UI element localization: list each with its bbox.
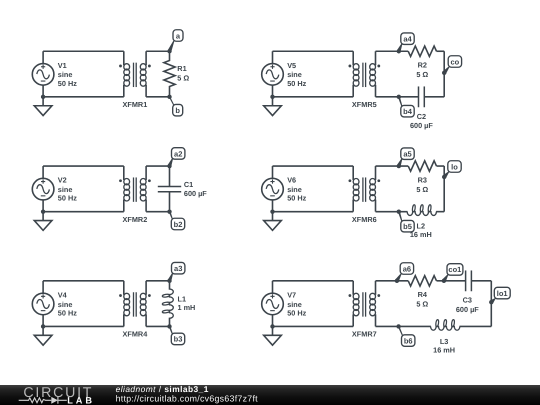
svg-text:50 Hz: 50 Hz: [287, 194, 306, 203]
voltage source V7 (sine): [262, 293, 284, 315]
svg-text:50 Hz: 50 Hz: [58, 194, 77, 203]
svg-text:600 µF: 600 µF: [456, 305, 479, 314]
transformer XFMR7: [349, 281, 381, 327]
svg-text:V5: V5: [287, 61, 296, 70]
svg-text:C1: C1: [184, 180, 193, 189]
transformer XFMR1: [119, 51, 151, 97]
capacitor C1: [158, 166, 181, 212]
node co1: [442, 264, 463, 283]
node b6: [396, 324, 415, 346]
wire circuit1 secondary top: [146, 50, 169, 52]
node a5: [397, 148, 415, 168]
svg-text:R2: R2: [418, 60, 427, 69]
capacitor C2: [419, 86, 425, 107]
svg-text:600 µF: 600 µF: [184, 189, 207, 198]
svg-text:L1: L1: [178, 294, 187, 303]
svg-text:b6: b6: [404, 336, 413, 345]
wire circuit4 secondary bottom: [146, 325, 169, 327]
wire circuit4 primary top: [43, 280, 124, 282]
node b4: [397, 95, 415, 117]
wire circuit7 secondary top: [376, 280, 409, 282]
svg-text:XFMR6: XFMR6: [352, 215, 377, 224]
wire circuit1 primary top: [43, 50, 124, 52]
transformer XFMR5: [349, 51, 381, 97]
svg-text:V6: V6: [287, 176, 296, 185]
svg-text:XFMR2: XFMR2: [123, 215, 148, 224]
svg-text:600 µF: 600 µF: [410, 121, 433, 130]
logo resistor-diode squiggle: [19, 397, 67, 404]
voltage source V1 (sine): [32, 64, 54, 86]
junction V4 ground node: [41, 324, 45, 328]
svg-text:sine: sine: [287, 185, 302, 194]
svg-text:b2: b2: [174, 220, 183, 229]
ground: [264, 326, 282, 345]
node lo1: [489, 287, 510, 304]
ground: [264, 97, 282, 116]
svg-text:V1: V1: [58, 61, 67, 70]
transformer XFMR2: [119, 166, 151, 212]
svg-text:co1: co1: [448, 265, 461, 274]
svg-text:C3: C3: [463, 295, 472, 304]
voltage source V2 (sine): [32, 178, 54, 200]
wire circuit5 primary top: [273, 50, 354, 52]
junction V6 ground node: [270, 209, 274, 213]
ground: [34, 212, 52, 231]
footer bar: [0, 385, 540, 405]
svg-text:V7: V7: [287, 290, 296, 299]
inductor L2: [407, 205, 436, 216]
svg-text:LAB: LAB: [67, 395, 95, 405]
svg-text:b: b: [175, 106, 180, 115]
transformer XFMR4: [119, 281, 151, 327]
wire circuit7 secondary right: [490, 281, 492, 327]
svg-text:V4: V4: [58, 290, 68, 299]
wire circuit5 secondary top: [376, 50, 409, 52]
svg-text:XFMR4: XFMR4: [123, 330, 149, 339]
wire circuit6 secondary top: [376, 165, 409, 167]
node a: [167, 30, 183, 54]
voltage source V5 (sine): [262, 64, 284, 86]
svg-text:a5: a5: [403, 149, 411, 158]
wire circuit6 primary top: [273, 165, 354, 167]
svg-text:V2: V2: [58, 176, 67, 185]
node a3: [167, 262, 185, 283]
svg-text:50 Hz: 50 Hz: [58, 79, 77, 88]
svg-text:5 Ω: 5 Ω: [177, 73, 189, 82]
wire circuit4 secondary top: [146, 280, 169, 282]
svg-text:50 Hz: 50 Hz: [287, 79, 306, 88]
svg-text:XFMR5: XFMR5: [352, 100, 377, 109]
node b: [167, 95, 182, 116]
wire circuit6 secondary bottom: [376, 211, 408, 213]
svg-text:1 mH: 1 mH: [178, 303, 196, 312]
wire circuit5 secondary bottom: [376, 96, 419, 98]
resistor R2: [408, 46, 436, 56]
node a4: [397, 33, 415, 54]
svg-text:5 Ω: 5 Ω: [416, 185, 428, 194]
wire circuit2 secondary bottom: [146, 211, 169, 213]
wire circuit2 primary bottom: [42, 200, 44, 212]
node b2: [167, 209, 184, 229]
junction V7 ground node: [270, 324, 274, 328]
inductor L1: [162, 281, 173, 327]
svg-text:R1: R1: [177, 64, 186, 73]
node b3: [167, 324, 184, 344]
svg-text:sine: sine: [58, 70, 73, 79]
voltage source V6 (sine): [262, 178, 284, 200]
resistor R3: [408, 161, 436, 171]
junction V1 ground node: [41, 95, 45, 99]
wire circuit1 primary bottom: [42, 85, 44, 97]
wire circuit5 primary bottom: [272, 85, 274, 97]
svg-text:b4: b4: [403, 107, 413, 116]
ground: [34, 326, 52, 345]
inductor L3: [431, 319, 460, 330]
svg-text:http://circuitlab.com/cv6gs63f: http://circuitlab.com/cv6gs63f7z7ft: [116, 393, 259, 403]
svg-text:sine: sine: [58, 185, 73, 194]
svg-text:lo: lo: [451, 162, 458, 171]
wire circuit6 secondary right: [443, 166, 445, 212]
junction V5 ground node: [270, 95, 274, 99]
wire circuit1 secondary bottom: [146, 96, 169, 98]
svg-text:XFMR1: XFMR1: [123, 100, 148, 109]
svg-text:co: co: [451, 57, 460, 66]
wire circuit5 secondary right: [443, 51, 445, 97]
wire circuit2 primary top: [43, 165, 124, 167]
capacitor C3: [466, 270, 472, 291]
svg-text:5 Ω: 5 Ω: [416, 70, 428, 79]
voltage source V4 (sine): [32, 293, 54, 315]
wire circuit7 secondary bottom: [376, 325, 431, 327]
svg-text:XFMR7: XFMR7: [352, 330, 377, 339]
svg-text:sine: sine: [287, 300, 302, 309]
svg-text:a4: a4: [403, 34, 412, 43]
wire circuit6 primary bottom: [272, 200, 274, 212]
svg-text:sine: sine: [58, 300, 73, 309]
wire circuit7 primary bottom: [272, 315, 274, 327]
svg-text:C2: C2: [417, 112, 426, 121]
node lo: [442, 161, 461, 179]
junction V2 ground node: [41, 209, 45, 213]
ground: [34, 97, 52, 116]
svg-text:R4: R4: [418, 290, 428, 299]
svg-text:a6: a6: [403, 264, 411, 273]
node co: [442, 56, 462, 75]
ground: [264, 212, 282, 231]
node b5: [397, 209, 415, 232]
node a2: [167, 148, 185, 169]
resistor R4: [408, 276, 436, 286]
svg-text:b5: b5: [403, 222, 412, 231]
svg-text:b3: b3: [174, 335, 183, 344]
svg-text:lo1: lo1: [497, 289, 508, 298]
svg-text:R3: R3: [418, 175, 427, 184]
wire circuit7 primary top: [273, 280, 354, 282]
resistor R1: [164, 51, 175, 97]
transformer XFMR6: [349, 166, 381, 212]
node a6: [395, 263, 414, 283]
svg-text:sine: sine: [287, 70, 302, 79]
svg-text:50 Hz: 50 Hz: [58, 308, 77, 317]
svg-text:a2: a2: [174, 149, 182, 158]
svg-text:5 Ω: 5 Ω: [416, 300, 428, 309]
svg-text:16 mH: 16 mH: [433, 345, 455, 354]
wire circuit4 primary bottom: [42, 315, 44, 327]
svg-text:a3: a3: [174, 264, 182, 273]
svg-text:50 Hz: 50 Hz: [287, 308, 306, 317]
wire circuit2 secondary top: [146, 165, 169, 167]
